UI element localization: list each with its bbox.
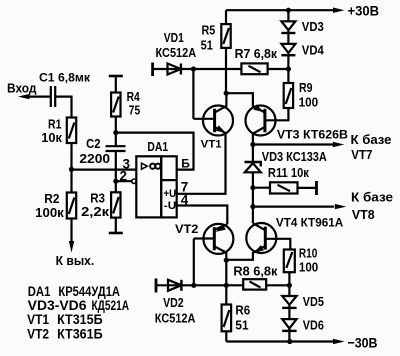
svg-text:КД521А: КД521А [92,298,130,313]
svg-text:R6: R6 [235,303,250,318]
svg-text:51: 51 [201,38,213,53]
svg-text:VD6: VD6 [303,319,324,333]
svg-text:R5: R5 [202,23,216,38]
svg-text:VD3 КС133А: VD3 КС133А [262,150,327,164]
svg-text:2: 2 [120,168,128,183]
svg-text:Б: Б [181,156,190,170]
svg-text:R2: R2 [44,191,59,206]
svg-text:К базе: К базе [351,191,393,205]
svg-text:4: 4 [181,192,189,207]
svg-text:75: 75 [129,102,140,117]
svg-text:R10: R10 [299,245,317,260]
svg-text:VD4: VD4 [302,44,324,58]
svg-text:2200: 2200 [79,151,110,166]
svg-text:VT1: VT1 [201,139,222,151]
svg-text:КС512А: КС512А [156,46,197,60]
svg-text:VT1: VT1 [27,312,49,327]
svg-text:R11 10к: R11 10к [268,166,310,180]
svg-text:100: 100 [299,94,319,109]
svg-text:+U: +U [164,188,177,200]
svg-text:VT2: VT2 [27,327,49,342]
svg-text:C2: C2 [86,136,100,151]
svg-text:К базе: К базе [351,133,392,147]
svg-text:+30В: +30В [348,3,380,19]
svg-text:К вых.: К вых. [56,253,95,268]
svg-text:DA1: DA1 [147,139,168,154]
svg-text:R7 6,8к: R7 6,8к [235,46,278,61]
svg-text:КТ361Б: КТ361Б [57,327,103,342]
svg-text:-U: -U [164,200,176,212]
svg-text:100к: 100к [35,205,64,220]
svg-text:−30В: −30В [348,334,378,350]
svg-text:КР544УД1А: КР544УД1А [58,284,120,299]
svg-text:VD1: VD1 [164,31,184,45]
svg-text:VD3: VD3 [302,20,324,34]
svg-text:Вход: Вход [7,81,37,95]
svg-text:R9: R9 [299,80,313,95]
svg-text:КС512А: КС512А [155,311,196,325]
svg-text:VT4 КТ961А: VT4 КТ961А [276,215,344,229]
svg-text:VD3-VD6: VD3-VD6 [28,298,87,313]
svg-text:100: 100 [299,260,318,275]
svg-text:КТ315Б: КТ315Б [57,312,103,327]
svg-text:10к: 10к [41,130,62,145]
svg-text:C1 6,8мк: C1 6,8мк [39,70,91,84]
svg-text:VT2: VT2 [175,224,198,236]
svg-text:2,2к: 2,2к [81,204,109,219]
svg-text:VT7: VT7 [351,148,372,162]
svg-text:51: 51 [235,317,248,332]
svg-text:DA1: DA1 [28,284,51,299]
svg-text:VT3 КТ626В: VT3 КТ626В [277,127,348,141]
svg-text:R8 6,8к: R8 6,8к [233,264,278,278]
svg-text:VD5: VD5 [303,295,324,309]
svg-text:VD2: VD2 [163,296,184,310]
svg-text:VT8: VT8 [352,208,375,222]
